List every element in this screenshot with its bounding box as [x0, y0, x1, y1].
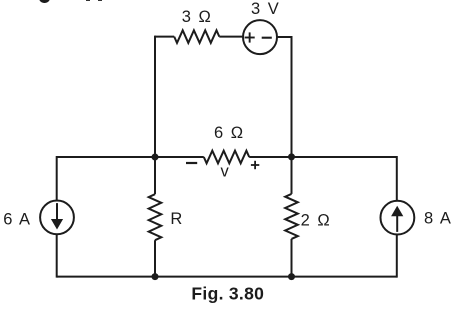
- svg-text:3 V: 3 V: [251, 0, 280, 18]
- svg-text:R: R: [170, 210, 182, 228]
- svg-text:2 Ω: 2 Ω: [301, 211, 332, 229]
- svg-text:6 A: 6 A: [3, 211, 31, 229]
- svg-text:6 Ω: 6 Ω: [214, 124, 245, 142]
- svg-text:3 Ω: 3 Ω: [182, 8, 213, 26]
- svg-text:v: v: [220, 163, 229, 181]
- svg-text:8 A: 8 A: [424, 210, 452, 228]
- svg-text:Fig. 3.80: Fig. 3.80: [191, 284, 264, 304]
